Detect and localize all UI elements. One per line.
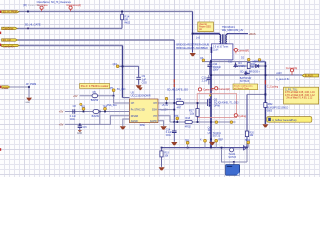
pin AGND to ground [158, 121, 164, 126]
wire snubber drop to ground [192, 34, 194, 53]
testpoint dot row61 right [247, 58, 250, 61]
svg-text:100V: 100V [213, 69, 219, 72]
svg-text:C0G: C0G [70, 118, 75, 121]
pin PH wire [158, 116, 170, 122]
svg-text:TP11: TP11 [245, 139, 251, 142]
svg-text:DPAK: DPAK [214, 104, 221, 107]
current probe drain [211, 87, 215, 89]
svg-text:+5V: +5V [59, 124, 64, 127]
svg-text:GND: GND [25, 102, 30, 104]
svg-text:SOT23: SOT23 [213, 135, 221, 138]
svg-text:SSH: SSH [152, 109, 157, 112]
testpoint small above C8 [80, 103, 82, 105]
wire port5 branch [10, 87, 29, 97]
note box beads cooling [233, 84, 258, 90]
junction SSH net3 [173, 109, 175, 111]
svg-text:SD_HI_BRIDGE+: SD_HI_BRIDGE+ [240, 70, 260, 73]
capacitor C14 on net3 [166, 122, 177, 142]
resistor R20 on aux [245, 131, 254, 137]
junction on net1 near port [27, 11, 29, 13]
svg-text:4R7: 4R7 [177, 107, 182, 110]
wire row y61.5 [202, 61, 265, 63]
junction U loop [99, 111, 101, 113]
junction drain/row75 [210, 74, 212, 76]
svg-text:R16: R16 [177, 98, 182, 101]
junction drain row122 [210, 121, 212, 123]
capacitor C8 on in2 [70, 105, 77, 121]
junction on net2 [27, 28, 29, 30]
junction net4 / C9 branch [122, 65, 124, 67]
testpoint on row122 a [215, 121, 218, 124]
capacitor C15 to gnd [77, 124, 87, 135]
testpoint dot gate [166, 100, 168, 103]
svg-text:JP_PWM: JP_PWM [26, 83, 36, 86]
svg-text:2.2nF: 2.2nF [202, 79, 209, 82]
ground right bus [262, 124, 268, 127]
junction net1 / R14 [121, 11, 123, 13]
svg-text:AGHD: AGHD [150, 120, 157, 123]
svg-text:SD_HI_GATE: SD_HI_GATE [25, 23, 41, 27]
wire row y75 to output port [211, 74, 302, 76]
svg-text:C12: C12 [228, 61, 233, 64]
wire net1 horizontal from port P1 [19, 10, 193, 12]
svg-text:TP8: TP8 [174, 115, 179, 118]
testpoint TP3 [83, 110, 85, 111]
junction C15 [79, 124, 81, 126]
wire transformer right pin [227, 33, 248, 35]
junction TP5 row [113, 95, 115, 97]
wire row y66 bridge [237, 65, 265, 67]
ferrite bead FB2 [264, 103, 289, 113]
svg-text:SOT23: SOT23 [228, 156, 236, 159]
capacitor C9 [136, 77, 140, 79]
svg-text:S_PS_TOL:: S_PS_TOL: [285, 88, 298, 91]
junction TP3 [83, 111, 85, 113]
probe circle CprimGS [198, 88, 201, 91]
ground at U5 right [160, 126, 166, 129]
wire net1 thick to transformer [193, 33, 220, 35]
wire U loop to DISAB [100, 112, 130, 125]
transformer T1 core [223, 34, 224, 44]
wire source stub to right bus [247, 93, 265, 95]
testpoint TP8 [176, 120, 178, 122]
probe red dash on right bus [264, 80, 266, 84]
testpoint TP5 [113, 92, 115, 96]
svg-text:WE_MIDCOM_HV: WE_MIDCOM_HV [222, 28, 244, 32]
sheet entry marker red 5 [0, 148, 1, 151]
capacitor C10 [207, 62, 221, 75]
svg-text:AGND: AGND [131, 120, 138, 123]
port P1 [2, 11, 20, 13]
svg-text:C0G: C0G [142, 81, 147, 85]
svg-text:C0G: C0G [166, 134, 171, 137]
testpoint U6 right [215, 142, 217, 148]
svg-text:Clearance[A]: Clearance[A] [66, 4, 81, 7]
wire in1 row y95.7 [80, 95, 114, 97]
svg-text:4k02: 4k02 [125, 21, 131, 25]
pcb footprint blue box [226, 165, 240, 176]
svg-text:GND: GND [77, 133, 82, 135]
junction net3 end [173, 121, 175, 123]
thick drain bus vertical [210, 60, 212, 148]
transformer T1 primary winding [220, 34, 221, 44]
wire net3 horizontal from port P3 [18, 39, 175, 41]
svg-text:SD_HI_GATE_ISO: SD_HI_GATE_ISO [167, 88, 188, 91]
svg-text:SOT323: SOT323 [240, 80, 250, 83]
wire in2 row y111.5 [65, 111, 130, 113]
wire feedback loop [222, 148, 248, 162]
svg-text:UCC21520ADWR: UCC21520ADWR [131, 95, 151, 98]
svg-text:BAV99: BAV99 [91, 99, 99, 102]
directive circle 1 [41, 9, 43, 11]
resistor R18 [185, 117, 193, 128]
svg-text:Used to: Used to [199, 23, 208, 26]
junction bottom aux [246, 147, 248, 149]
svg-text:0.7% of Watt 0.05, 3.06, 1.12: 0.7% of Watt 0.05, 3.06, 1.12 [285, 94, 315, 97]
ground U6 [209, 142, 215, 145]
transformer body box [211, 44, 233, 60]
shunt reg TL431 circle [228, 148, 236, 159]
diode D6 stadium [92, 110, 100, 118]
svg-text:C15: C15 [83, 127, 88, 129]
svg-text:+5V: +5V [73, 95, 78, 98]
wire gate from R16 [184, 102, 208, 104]
resistor R14 [121, 14, 124, 19]
svg-text:REF: REF [218, 140, 223, 142]
junction bottom drain [210, 147, 212, 149]
wire net4 vertical drop [122, 46, 124, 98]
resistor R16 [176, 98, 183, 109]
svg-text:at Class1 Clear: at Class1 Clear [234, 87, 249, 90]
svg-text:CprimGS: CprimGS [203, 89, 214, 92]
junction gate R17 [197, 102, 199, 104]
note box Pins F [80, 84, 110, 89]
svg-text:+5V: +5V [59, 111, 64, 114]
junction drain139 [210, 138, 212, 140]
junction right bus stub [264, 93, 266, 95]
junction right bus/row66 [265, 65, 267, 67]
ground above U5 [138, 87, 143, 90]
svg-text:TP3: TP3 [81, 106, 86, 109]
svg-text:0.5 td 10 Turns: 0.5 td 10 Turns [213, 45, 229, 48]
svg-text:OH: OH [153, 102, 157, 105]
resistor R21 vertical [247, 63, 256, 69]
svg-text:[R]: [R] [23, 4, 27, 7]
wire net1 vertical drop [192, 11, 194, 33]
svg-text:+BUS: +BUS [249, 32, 256, 36]
resistor R19 to ground [160, 148, 170, 167]
svg-text:1n5: 1n5 [196, 36, 201, 39]
junction TP4 [104, 111, 106, 113]
pin SSH wire [158, 109, 174, 111]
junction bottom TP9 [187, 147, 189, 149]
current probe at output row [291, 72, 293, 75]
wire net4 into IC [123, 97, 130, 99]
junction drain/row61 [210, 61, 212, 63]
svg-text:0R: 0R [251, 66, 254, 69]
red dashes on net3 vertical [173, 79, 175, 87]
diode pair BAT54 [240, 72, 252, 83]
sheet entry marker red 2 [0, 32, 1, 34]
note box S_PS list [284, 87, 319, 104]
svg-text:Cycling: Cycling [238, 115, 247, 118]
svg-text:R18: R18 [185, 117, 190, 120]
svg-text:Ps STHC SD: Ps STHC SD [131, 109, 145, 112]
ground below snubber [190, 53, 196, 56]
wire stub to pcb icon [233, 162, 235, 165]
diode D4 vertical [234, 62, 246, 68]
testpoint U6 left [204, 142, 206, 148]
port P4 [2, 44, 20, 46]
wire aux vertical [246, 94, 248, 147]
svg-text:4R02: 4R02 [185, 125, 192, 128]
op-amp U5 gate driver body [130, 90, 159, 122]
junction gate net3 [173, 102, 175, 104]
svg-text:SHE: SHE [140, 124, 145, 127]
svg-text:CH: CH [131, 102, 135, 105]
junction TP8 [176, 121, 178, 123]
label strip A_buffver [267, 117, 312, 123]
ground pin4 U5 left [120, 126, 126, 129]
transformer T1 secondary winding [226, 34, 227, 44]
svg-text:TP9: TP9 [185, 140, 190, 143]
svg-text:0805: 0805 [267, 109, 273, 112]
svg-text:0.7% of Watt 0.05, 4.06, 1.16: 0.7% of Watt 0.05, 4.06, 1.16 [285, 91, 315, 94]
note box Used to Power SSD pin [198, 22, 214, 32]
testpoint dot row61 left [202, 59, 205, 62]
sheet background [0, 0, 320, 177]
ground below C9 [136, 85, 142, 88]
sheet entry marker red 4 [0, 86, 1, 89]
svg-text:SD_Ctrl: SD_Ctrl [3, 39, 12, 42]
svg-text:Power SSD: Power SSD [199, 26, 211, 29]
port P3 [2, 39, 18, 41]
wire IC OH to R16 [158, 102, 176, 104]
svg-text:GateDrive: GateDrive [3, 27, 14, 30]
capacitor C11 [202, 75, 212, 85]
testpoint on row122 b [230, 121, 233, 124]
diode D9 on bottom row [243, 146, 246, 150]
svg-text:Current[A]: Current[A] [286, 67, 298, 70]
junction port5 [28, 86, 30, 88]
resistor R17 pulldown [189, 103, 199, 122]
junction feedback left [221, 147, 223, 149]
port right OUT [302, 74, 319, 77]
svg-text:PWM: PWM [2, 87, 8, 90]
testpoint QF [116, 65, 119, 68]
wire net3 vertical long drop [173, 40, 175, 122]
svg-text:MBRS1100: MBRS1100 [253, 61, 266, 64]
ground below C14 [171, 142, 177, 145]
wire net2 horizontal from port P2 [17, 27, 122, 29]
junction gate tp [166, 102, 168, 104]
svg-text:B_AUX: B_AUX [305, 75, 313, 78]
svg-text:b_aux+0.5s: b_aux+0.5s [276, 78, 290, 81]
wire net4 horizontal from port P4 [19, 45, 122, 47]
svg-text:+5.4V: +5.4V [162, 104, 169, 107]
svg-text:2% of Watt 70, 4.05, 1.12: 2% of Watt 70, 4.05, 1.12 [286, 97, 313, 100]
diode D6 on row66 [255, 64, 261, 67]
diode D5 [91, 91, 99, 102]
svg-text:DISAB: DISAB [131, 115, 139, 118]
sheet entry marker red 1 [0, 10, 1, 13]
svg-text:TP4: TP4 [103, 106, 108, 109]
wire R14 branch vertical [121, 11, 123, 28]
current probe at transformer box [233, 50, 236, 54]
svg-text:ANA_INA: ANA_INA [107, 104, 118, 107]
wire source row y122 [170, 121, 236, 123]
svg-text:Current[A]: Current[A] [218, 88, 230, 91]
svg-text:BAV99: BAV99 [92, 115, 100, 118]
thick bottom row y147.6 [162, 147, 248, 149]
wire pin AGND left stub [123, 119, 130, 126]
testpoint TP4 [104, 110, 106, 111]
svg-text:Param=SD_HI: Param=SD_HI [28, 4, 44, 7]
sheet entry marker red 3 [0, 44, 1, 47]
svg-text:u12V: u12V [276, 72, 282, 75]
testpoint dot row61 right2 [258, 59, 261, 62]
wire in3 lower row [65, 123, 100, 125]
port P5 [2, 86, 10, 88]
power ground port5 [25, 98, 32, 104]
wire TP5 to pin CH [114, 96, 130, 103]
junction bottom left [161, 147, 163, 149]
svg-text:PH: PH [153, 115, 157, 118]
mosfet Q2 [208, 95, 212, 107]
svg-text:A_buffver GeneralPurp: A_buffver GeneralPurp [272, 119, 297, 122]
svg-text:BRIDGE+RECT+SNUBBER: BRIDGE+RECT+SNUBBER [176, 47, 208, 50]
junction feedback mid [233, 161, 235, 163]
svg-text:US1M: US1M [238, 65, 245, 68]
wire C9 branch [119, 66, 138, 85]
svg-text:GateDrvEn: GateDrvEn [3, 45, 15, 48]
svg-text:11uH: 11uH [213, 49, 219, 51]
junction R17 row [197, 121, 199, 123]
svg-text:Pins F: 0.75kOhm resistor: Pins F: 0.75kOhm resistor [81, 85, 109, 88]
svg-text:5V_ISO: 5V_ISO [117, 88, 126, 91]
ground below R19 [159, 167, 165, 170]
directive circle 2 [70, 9, 72, 11]
probe circle on blanket right edge [234, 114, 237, 117]
svg-text:C_Cycling: C_Cycling [267, 86, 279, 89]
svg-text:QF1: QF1 [113, 63, 118, 66]
testpoint TP9 [187, 144, 189, 148]
junction right bus/row75 [265, 74, 267, 76]
bus vertical right [264, 62, 266, 124]
svg-text:SD_HI_PWM: SD_HI_PWM [3, 11, 17, 14]
testpoint TP11 [247, 144, 249, 148]
junction net1 corner / transformer feed [192, 33, 194, 35]
red blanket box around Q2 [197, 94, 236, 118]
port P2 [2, 27, 18, 29]
svg-text:Current[A]: Current[A] [237, 49, 249, 52]
